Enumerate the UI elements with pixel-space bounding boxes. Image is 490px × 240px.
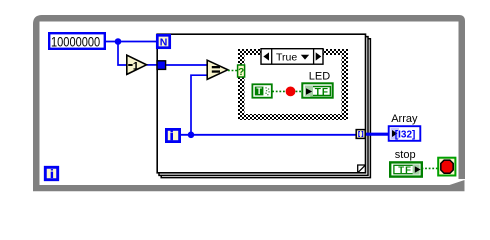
- while loop border (top, left, right bars): [33, 15, 465, 185]
- svg-text:[I32]: [I32]: [395, 129, 416, 140]
- breakpoint red dot: [286, 87, 296, 97]
- for loop stacked frame 3: [161, 39, 370, 178]
- svg-text:?: ?: [238, 67, 244, 78]
- wire branch down to decrement: [118, 42, 127, 66]
- for loop main frame: [157, 34, 365, 173]
- svg-text:1: 1: [133, 61, 139, 73]
- wire i branch up to equal node: [191, 75, 207, 135]
- wire i terminal to index tunnel: [181, 134, 356, 136]
- case selector label: [261, 49, 323, 64]
- svg-text:Array: Array: [391, 113, 418, 125]
- Array indicator: [389, 126, 421, 141]
- svg-text:10000000: 10000000: [51, 34, 100, 50]
- True constant: [252, 84, 271, 97]
- svg-text:LED: LED: [309, 71, 330, 83]
- indexing tunnel []: [356, 130, 365, 139]
- for loop folded corner: [358, 165, 366, 173]
- N terminal: [157, 35, 169, 48]
- wire constant to N: [105, 41, 157, 43]
- wire stop to conditional terminal (green dotted): [422, 167, 438, 169]
- wire breakpoint to LED (green dotted): [296, 90, 303, 92]
- wire equal to case selector (green dotted): [228, 70, 238, 72]
- svg-text:T: T: [256, 86, 262, 96]
- i terminal (for loop): [166, 129, 179, 141]
- wire junction dot: [115, 38, 122, 45]
- while loop border bottom bar with loop arrow: [33, 180, 465, 191]
- svg-text:TF: TF: [315, 87, 329, 98]
- numeric constant 10000000: [49, 33, 105, 50]
- wire decrement to tunnel: [147, 64, 158, 66]
- wire junction dot on i wire: [188, 132, 195, 139]
- wire tunnel to equal node: [166, 64, 207, 66]
- tunnel (blue square on for loop border): [157, 61, 166, 70]
- equal node: [207, 60, 228, 79]
- LED indicator terminal: [302, 83, 332, 98]
- stop boolean control: [390, 162, 422, 176]
- case structure border (checkered): [238, 49, 348, 120]
- svg-text:N: N: [160, 37, 168, 49]
- svg-text:TF: TF: [398, 165, 412, 176]
- svg-text:True: True: [276, 51, 297, 63]
- conditional terminal (stop sign): [438, 158, 455, 176]
- decrement node: [127, 55, 147, 74]
- wire True constant to breakpoint (green dotted): [272, 90, 285, 92]
- i terminal (while loop): [45, 167, 57, 179]
- svg-text:stop: stop: [395, 149, 416, 161]
- for loop stacked frame 2: [159, 37, 368, 176]
- array wire (thick): [366, 133, 390, 136]
- case selector terminal ?: [238, 65, 245, 78]
